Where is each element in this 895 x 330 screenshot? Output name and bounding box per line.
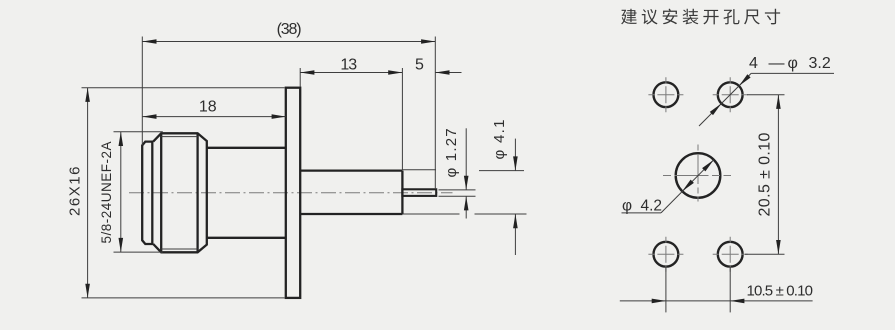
svg-text:13: 13 — [340, 57, 357, 74]
connector front lip outline — [142, 142, 153, 244]
svg-text:10.5 ± 0.10: 10.5 ± 0.10 — [747, 283, 813, 300]
svg-text:4: 4 — [749, 55, 758, 72]
dim 5 — [435, 72, 461, 74]
dim phi 4.1 rear cylinder — [402, 169, 436, 171]
hole bottom-left — [654, 242, 679, 267]
svg-text:20.5 ± 0.10: 20.5 ± 0.10 — [757, 132, 774, 216]
dim 10.5 +/- 0.10 — [665, 267, 667, 313]
svg-text:5: 5 — [415, 57, 424, 74]
dim 18 — [142, 116, 285, 118]
svg-text:—: — — [769, 55, 785, 72]
rear cylinder (phi 4.1) — [300, 171, 402, 214]
svg-text:φ: φ — [622, 198, 632, 215]
svg-text:(38): (38) — [277, 21, 302, 38]
dim 26X16 — [82, 87, 285, 89]
hex coupling nut outline — [153, 133, 207, 252]
svg-text:φ 1.27: φ 1.27 — [443, 127, 460, 177]
svg-text:4.2: 4.2 — [641, 198, 663, 215]
hole top-right — [718, 82, 743, 107]
title 建议安装开孔尺寸 — [621, 9, 780, 25]
svg-text:3.2: 3.2 — [809, 55, 831, 72]
svg-text:φ 4.1: φ 4.1 — [491, 118, 508, 159]
svg-text:5/8-24UNEF-2A: 5/8-24UNEF-2A — [99, 141, 114, 244]
hex flat boundary verticals — [160, 133, 162, 252]
svg-text:26X16: 26X16 — [67, 165, 84, 216]
svg-text:18: 18 — [199, 99, 217, 116]
dim 13 — [299, 68, 301, 87]
hex chamfer thin lines — [161, 136, 197, 138]
dim 20.5 +/- 0.10 — [747, 94, 785, 96]
dim (38) — [141, 37, 143, 146]
svg-text:φ: φ — [788, 55, 798, 72]
lip/hex boundary vertical — [151, 142, 153, 244]
hole top-left — [654, 82, 679, 107]
flange — [286, 88, 300, 298]
center hole phi 4.2 — [676, 153, 721, 198]
dim phi 1.27 pin — [439, 189, 476, 191]
body cylinder between nut and flange — [207, 148, 286, 238]
center pin (phi 1.27) — [402, 189, 436, 196]
dim 5/8-24UNEF-2A thread — [114, 131, 163, 133]
centerline of connector axis — [129, 192, 453, 194]
hole bottom-right — [718, 242, 743, 267]
